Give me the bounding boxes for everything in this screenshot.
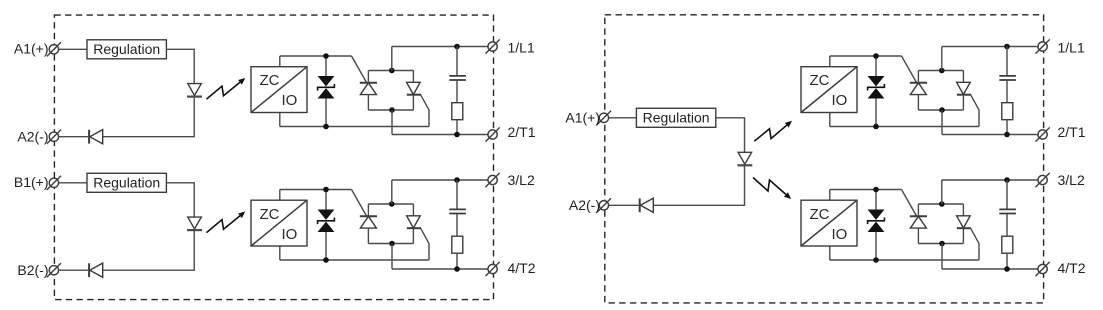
- thyristor right triangle left ch2: [407, 216, 421, 228]
- thyristor right triangle right ch1: [957, 82, 971, 94]
- svg-text:Regulation: Regulation: [643, 109, 710, 125]
- LED cathode bar ch2: [187, 229, 202, 231]
- gate lead right thyristor right ch2: [971, 228, 979, 260]
- svg-text:ZC: ZC: [260, 206, 280, 223]
- opto light arrow upper right: [754, 125, 787, 141]
- op-coupler ZC/IO box left ch1: [251, 67, 307, 113]
- wire snubber top right ch2: [1006, 180, 1008, 209]
- wire ZC/IO bottom lead left ch1: [279, 113, 281, 127]
- thyristor left cathode bar left ch2: [360, 215, 377, 217]
- wire ZC/IO top lead left ch2: [279, 190, 281, 201]
- terminal load bottom right ch2: [1038, 264, 1047, 273]
- wire left thyristor down right ch2: [917, 228, 919, 243]
- gate lead right thyristor left ch1: [421, 95, 429, 127]
- junction loop bottom right ch1: [939, 107, 945, 113]
- wire A2 to diode right: [609, 204, 640, 206]
- svg-text:ZC: ZC: [810, 206, 830, 223]
- TVS zener upper triangle right ch2: [868, 210, 885, 220]
- junction loop top left ch2: [389, 201, 395, 207]
- svg-text:B1(+): B1(+): [14, 174, 49, 190]
- wire regulation to LED ch2: [166, 183, 194, 217]
- junction TVS bottom right ch1: [873, 124, 879, 130]
- wire gate rail top right ch1: [830, 55, 902, 57]
- terminal A2 right: [599, 201, 608, 210]
- thyristor left triangle right ch2: [910, 216, 926, 228]
- junction loop top left ch1: [389, 68, 395, 74]
- regulation box ch2: [87, 173, 166, 192]
- wire plus terminal to regulation ch1: [59, 48, 87, 50]
- wire snubber mid right ch2: [1006, 214, 1008, 236]
- wire loop bottom left ch2: [368, 243, 413, 245]
- terminal A1 right: [599, 113, 608, 122]
- resistor snubber right ch2: [1002, 236, 1013, 253]
- wire right thyristor down left ch2: [412, 228, 414, 243]
- wire output row bottom right ch1: [942, 134, 1038, 136]
- wire snubber top left ch2: [456, 180, 458, 209]
- svg-text:A1(+): A1(+): [565, 109, 600, 125]
- wire ZC/IO bottom lead right ch1: [829, 113, 831, 127]
- LED triangle right: [738, 152, 752, 164]
- wire snubber top left ch1: [456, 47, 458, 76]
- wire loop riser bottom left ch1: [391, 110, 393, 135]
- wire output row top left ch2: [392, 179, 488, 181]
- wire right thyristor up left ch1: [412, 71, 414, 83]
- svg-text:ZC: ZC: [260, 72, 280, 89]
- wire snubber mid left ch1: [456, 81, 458, 103]
- TVS zener bar left ch2: [318, 218, 335, 225]
- wire TVS bottom lead right ch2: [875, 232, 877, 260]
- op-coupler ZC/IO box right ch2: [801, 200, 857, 246]
- wire snubber mid left ch2: [456, 214, 458, 236]
- junction TVS bottom left ch2: [323, 257, 329, 263]
- wire snubber bottom left ch1: [456, 120, 458, 135]
- junction snubber top right ch2: [1004, 177, 1010, 183]
- wire left thyristor up left ch2: [367, 204, 369, 216]
- junction TVS bottom left ch1: [323, 124, 329, 130]
- svg-text:ZC: ZC: [810, 72, 830, 89]
- junction snubber bottom right ch2: [1004, 266, 1010, 272]
- thyristor left triangle left ch1: [360, 83, 376, 95]
- wire right thyristor up left ch2: [412, 204, 414, 216]
- wire gate rail bottom left ch2: [280, 259, 429, 261]
- wire right thyristor up right ch1: [962, 71, 964, 83]
- terminal plus ch2: [49, 178, 58, 187]
- resistor snubber right ch1: [1002, 103, 1013, 120]
- dashed border left diagram: [54, 15, 493, 300]
- svg-text:1/L1: 1/L1: [508, 39, 535, 55]
- thyristor right triangle left ch1: [407, 82, 421, 94]
- wire left thyristor down right ch1: [917, 95, 919, 110]
- thyristor right triangle right ch2: [957, 216, 971, 228]
- junction TVS top right ch2: [873, 187, 879, 193]
- TVS zener upper triangle left ch1: [318, 76, 335, 86]
- svg-text:3/L2: 3/L2: [508, 172, 535, 188]
- wire output row bottom right ch2: [942, 268, 1038, 270]
- junction loop bottom right ch2: [939, 241, 945, 247]
- wire regulation to LED right: [716, 118, 745, 153]
- svg-text:2/T1: 2/T1: [1058, 124, 1086, 140]
- wire LED to minus row ch2: [103, 230, 195, 270]
- svg-text:IO: IO: [282, 92, 298, 109]
- capacitor snubber plate1 right ch2: [999, 208, 1016, 210]
- wire loop riser top right ch2: [941, 180, 943, 204]
- junction loop bottom left ch2: [389, 241, 395, 247]
- ZC/IO diagonal left ch2: [252, 201, 307, 246]
- wire A1 to regulation right: [609, 117, 637, 119]
- svg-text:3/L2: 3/L2: [1058, 172, 1085, 188]
- wire left thyristor up right ch2: [917, 204, 919, 216]
- wire loop top right ch1: [918, 70, 963, 72]
- wire loop riser bottom right ch1: [941, 110, 943, 135]
- svg-text:IO: IO: [832, 226, 848, 243]
- wire right thyristor up right ch2: [962, 204, 964, 216]
- junction snubber top left ch2: [454, 177, 460, 183]
- wire LED to A2 row right: [653, 165, 744, 205]
- junction snubber top right ch1: [1004, 44, 1010, 50]
- capacitor snubber plate2 left ch2: [449, 213, 466, 215]
- wire loop riser top left ch2: [391, 180, 393, 204]
- junction TVS bottom right ch2: [873, 257, 879, 263]
- ZC/IO diagonal right ch2: [802, 201, 857, 246]
- wire ZC/IO top lead left ch1: [279, 56, 281, 67]
- junction snubber bottom left ch1: [454, 132, 460, 138]
- capacitor snubber plate2 right ch1: [999, 79, 1016, 81]
- thyristor left cathode bar right ch1: [910, 82, 927, 84]
- wire gate rail top left ch1: [280, 55, 352, 57]
- wire gate rail top right ch2: [830, 189, 902, 191]
- svg-text:IO: IO: [832, 92, 848, 109]
- svg-text:A2(-): A2(-): [569, 197, 600, 213]
- wire loop riser bottom right ch2: [941, 244, 943, 270]
- wire output row bottom left ch2: [392, 268, 488, 270]
- terminal load top right ch1: [1038, 42, 1047, 51]
- capacitor snubber plate2 left ch1: [449, 79, 466, 81]
- svg-text:2/T1: 2/T1: [508, 124, 536, 140]
- wire output row top left ch1: [392, 46, 488, 48]
- junction snubber bottom right ch1: [1004, 132, 1010, 138]
- svg-text:A2(-): A2(-): [17, 128, 48, 144]
- wire right thyristor down right ch2: [962, 228, 964, 243]
- regulation box ch1: [87, 40, 166, 59]
- terminal load top left ch1: [488, 42, 497, 51]
- regulation box right: [636, 108, 715, 127]
- wire left thyristor up left ch1: [367, 71, 369, 83]
- wire right thyristor down right ch1: [962, 95, 964, 110]
- wire loop bottom right ch1: [918, 109, 963, 111]
- wire left thyristor down left ch1: [367, 95, 369, 110]
- junction loop bottom left ch1: [389, 107, 395, 113]
- opto light arrowhead lower right: [784, 192, 791, 199]
- diode reverse-protection right: [640, 198, 653, 212]
- wire loop bottom right ch2: [918, 243, 963, 245]
- wire loop top left ch1: [368, 70, 413, 72]
- diode cathode bar right: [639, 198, 641, 212]
- wire TVS top lead left ch1: [325, 56, 327, 76]
- gate lead right thyristor right ch1: [971, 95, 979, 127]
- op-coupler ZC/IO box right ch1: [801, 67, 857, 113]
- capacitor snubber plate1 left ch2: [449, 208, 466, 210]
- wire snubber top right ch1: [1006, 47, 1008, 76]
- junction snubber top left ch1: [454, 44, 460, 50]
- wire ZC/IO bottom lead right ch2: [829, 246, 831, 260]
- thyristor right cathode bar left ch1: [407, 94, 421, 96]
- TVS zener bar right ch1: [868, 84, 885, 91]
- opto light arrow ch1: [207, 82, 241, 99]
- wire loop bottom left ch1: [368, 109, 413, 111]
- thyristor left cathode bar right ch2: [910, 215, 927, 217]
- wire loop riser top left ch1: [391, 47, 393, 71]
- opto light arrow ch2: [207, 216, 241, 233]
- junction TVS top right ch1: [873, 53, 879, 59]
- wire ZC/IO top lead right ch2: [829, 190, 831, 201]
- svg-text:Regulation: Regulation: [93, 41, 160, 57]
- wire gate rail bottom right ch2: [830, 259, 979, 261]
- terminal minus ch2: [49, 266, 58, 275]
- dashed border right diagram: [605, 15, 1044, 303]
- ZC/IO diagonal left ch1: [252, 67, 307, 112]
- svg-text:4/T2: 4/T2: [1058, 260, 1086, 276]
- TVS zener bar left ch1: [318, 84, 335, 91]
- wire TVS bottom lead right ch1: [875, 99, 877, 127]
- junction TVS top left ch2: [323, 187, 329, 193]
- wire minus terminal to diode ch1: [59, 136, 89, 138]
- wire snubber mid right ch1: [1006, 81, 1008, 103]
- wire LED to minus row ch1: [103, 97, 195, 137]
- TVS zener lower triangle left ch1: [318, 88, 335, 98]
- gate lead left thyristor left ch2: [352, 190, 367, 217]
- wire output row top right ch1: [942, 46, 1038, 48]
- opto light arrowhead upper right: [785, 121, 792, 128]
- svg-text:B2(-): B2(-): [17, 262, 48, 278]
- wire left thyristor up right ch1: [917, 71, 919, 83]
- resistor snubber left ch2: [452, 236, 463, 253]
- wire loop top right ch2: [918, 203, 963, 205]
- op-coupler ZC/IO box left ch2: [251, 200, 307, 246]
- LED cathode bar ch1: [187, 95, 202, 97]
- wire ZC/IO top lead right ch1: [829, 56, 831, 67]
- wire TVS top lead right ch1: [875, 56, 877, 76]
- thyristor right cathode bar left ch2: [407, 227, 421, 229]
- wire loop riser bottom left ch2: [391, 244, 393, 270]
- TVS zener lower triangle left ch2: [318, 222, 335, 232]
- svg-text:4/T2: 4/T2: [508, 260, 536, 276]
- opto light arrow lower right: [753, 178, 786, 195]
- terminal load bottom left ch2: [488, 264, 497, 273]
- wire gate rail top left ch2: [280, 189, 352, 191]
- ZC/IO diagonal right ch1: [802, 67, 857, 112]
- wire ZC/IO bottom lead left ch2: [279, 246, 281, 260]
- wire minus terminal to diode ch2: [59, 269, 89, 271]
- terminal load top right ch2: [1038, 175, 1047, 184]
- terminal load bottom left ch1: [488, 130, 497, 139]
- thyristor right cathode bar right ch1: [957, 94, 971, 96]
- opto light arrowhead ch2: [238, 211, 245, 218]
- TVS zener bar right ch2: [868, 218, 885, 225]
- wire TVS bottom lead left ch1: [325, 99, 327, 127]
- wire gate rail bottom right ch1: [830, 126, 979, 128]
- gate lead left thyristor right ch1: [902, 56, 917, 83]
- wire plus terminal to regulation ch2: [59, 182, 87, 184]
- wire TVS bottom lead left ch2: [325, 232, 327, 260]
- capacitor snubber plate1 left ch1: [449, 75, 466, 77]
- svg-text:A1(+): A1(+): [14, 40, 49, 56]
- wire left thyristor down left ch2: [367, 228, 369, 243]
- wire right thyristor down left ch1: [412, 95, 414, 110]
- junction TVS top left ch1: [323, 53, 329, 59]
- terminal load bottom right ch1: [1038, 130, 1047, 139]
- resistor snubber left ch1: [452, 103, 463, 120]
- terminal plus ch1: [49, 45, 58, 54]
- svg-text:1/L1: 1/L1: [1058, 39, 1085, 55]
- junction loop top right ch1: [939, 68, 945, 74]
- gate lead left thyristor right ch2: [902, 190, 917, 217]
- junction snubber bottom left ch2: [454, 266, 460, 272]
- wire TVS top lead left ch2: [325, 190, 327, 210]
- TVS zener lower triangle right ch1: [868, 88, 885, 98]
- diode cathode bar ch1: [88, 130, 90, 144]
- diode reverse-protection triangle ch2: [90, 263, 103, 277]
- wire snubber bottom left ch2: [456, 253, 458, 269]
- LED triangle ch1: [188, 84, 202, 96]
- opto light arrowhead ch1: [238, 78, 245, 85]
- TVS zener upper triangle left ch2: [318, 210, 335, 220]
- svg-text:IO: IO: [282, 226, 298, 243]
- LED triangle ch2: [188, 217, 202, 229]
- capacitor snubber plate1 right ch1: [999, 75, 1016, 77]
- thyristor left cathode bar left ch1: [360, 82, 377, 84]
- terminal load top left ch2: [488, 175, 497, 184]
- wire gate rail bottom left ch1: [280, 126, 429, 128]
- thyristor right cathode bar right ch2: [957, 227, 971, 229]
- wire snubber bottom right ch1: [1006, 120, 1008, 135]
- capacitor snubber plate2 right ch2: [999, 213, 1016, 215]
- diode reverse-protection triangle ch1: [90, 130, 103, 144]
- junction loop top right ch2: [939, 201, 945, 207]
- gate lead left thyristor left ch1: [352, 56, 367, 83]
- LED cathode bar right: [737, 164, 752, 166]
- TVS zener upper triangle right ch1: [868, 76, 885, 86]
- diode cathode bar ch2: [88, 263, 90, 277]
- terminal minus ch1: [49, 132, 58, 141]
- svg-text:Regulation: Regulation: [93, 174, 160, 190]
- TVS zener lower triangle right ch2: [868, 222, 885, 232]
- wire loop riser top right ch1: [941, 47, 943, 71]
- wire regulation to LED ch1: [166, 49, 194, 83]
- wire output row bottom left ch1: [392, 134, 488, 136]
- gate lead right thyristor left ch2: [421, 228, 429, 260]
- thyristor left triangle left ch2: [360, 216, 376, 228]
- wire TVS top lead right ch2: [875, 190, 877, 210]
- wire snubber bottom right ch2: [1006, 253, 1008, 269]
- wire loop top left ch2: [368, 203, 413, 205]
- wire output row top right ch2: [942, 179, 1038, 181]
- thyristor left triangle right ch1: [910, 83, 926, 95]
